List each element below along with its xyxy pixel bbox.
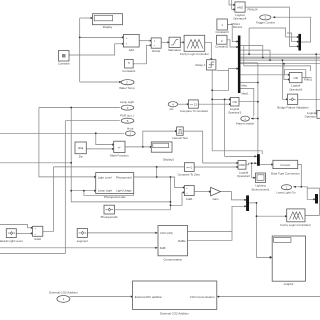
svg-text:Bridge Failure Validation: Bridge Failure Validation: [277, 105, 309, 109]
svg-text:Photoperiod: Photoperiod: [116, 175, 132, 179]
svg-text:Interval Test: Interval Test: [172, 136, 188, 140]
svg-text:segment: segment: [77, 239, 88, 243]
svg-text:Operator: Operator: [305, 115, 316, 119]
svg-text:CO2 Concentration: CO2 Concentration: [190, 295, 215, 299]
svg-text:Add1: Add1: [186, 197, 193, 201]
svg-text:Add2: Add2: [34, 237, 41, 241]
svg-text:RuBis: RuBis: [178, 239, 186, 243]
svg-text:Display1: Display1: [163, 157, 174, 161]
svg-text:[Da]: [Da]: [78, 146, 83, 150]
svg-text:PUR (a.u.): PUR (a.u.): [120, 113, 134, 117]
svg-text:Compare To Constant: Compare To Constant: [180, 109, 208, 113]
svg-text:Fuzzy Logic Controller2: Fuzzy Logic Controller2: [280, 223, 311, 227]
svg-text:OR: OR: [294, 76, 298, 80]
svg-text:Operator3: Operator3: [228, 111, 241, 115]
svg-text:<= 12: <= 12: [190, 102, 198, 106]
svg-text:Operator2: Operator2: [237, 174, 250, 178]
svg-text:Max1: Max1: [242, 91, 249, 95]
svg-text:External CO2 Addition: External CO2 Addition: [160, 312, 189, 316]
svg-text:Max: Max: [242, 83, 248, 87]
svg-text:Light Level: Light Level: [98, 175, 112, 179]
svg-text:Compensation: Compensation: [163, 257, 182, 261]
svg-text:Operator5: Operator5: [289, 87, 302, 91]
svg-text:Relay 2: Relay 2: [195, 63, 205, 67]
svg-text:Light Usage: Light Usage: [116, 189, 132, 193]
svg-text:Pattern switch: Pattern switch: [236, 122, 255, 126]
svg-text:Operator4: Operator4: [233, 17, 246, 21]
svg-text:Lamp Light: Lamp Light: [120, 100, 134, 104]
svg-text:Environment1: Environment1: [252, 187, 270, 191]
svg-text:Natural Light Level: Natural Light Level: [0, 239, 23, 243]
svg-text:pH: pH: [170, 107, 174, 111]
svg-text:OR: OR: [233, 100, 237, 104]
svg-text:Hour: Hour: [127, 127, 133, 131]
svg-text:Gain: Gain: [212, 197, 218, 201]
svg-text:AND: AND: [239, 163, 245, 167]
svg-text:Display: Display: [103, 25, 113, 29]
svg-text:Constant: Constant: [58, 62, 70, 66]
svg-text:Graph2: Graph2: [284, 282, 294, 286]
svg-text:P04o24: P04o24: [248, 7, 258, 11]
svg-text:eⁿ: eⁿ: [118, 145, 121, 149]
svg-text:RG4o1: RG4o1: [233, 25, 243, 29]
svg-text:AND: AND: [237, 5, 243, 9]
svg-text:Photoperiod1: Photoperiod1: [101, 215, 119, 219]
svg-text:Constant3: Constant3: [216, 30, 230, 34]
svg-text:== 0: == 0: [186, 165, 192, 169]
svg-text:Divide: Divide: [152, 49, 160, 53]
svg-text:External CO2 Addition: External CO2 Addition: [49, 291, 78, 295]
svg-text:RuB: RuB: [160, 246, 166, 250]
svg-text:Math Function: Math Function: [110, 153, 129, 157]
svg-text:Photoperiod calc: Photoperiod calc: [104, 195, 126, 199]
svg-text:Trigger Control: Trigger Control: [256, 20, 276, 24]
svg-text:Da: Da: [79, 155, 83, 159]
svg-text:P06o1: P06o1: [304, 77, 313, 81]
svg-text:Add: Add: [129, 48, 135, 52]
svg-text:CO2 (uM): CO2 (uM): [160, 231, 173, 235]
svg-text:Lamp Light: Lamp Light: [98, 189, 112, 193]
svg-text:Constant1: Constant1: [122, 69, 136, 73]
svg-text:Lamp Light On: Lamp Light On: [277, 190, 296, 194]
svg-text:Convert: Convert: [280, 163, 290, 167]
svg-text:Fuzzy Logic Controller: Fuzzy Logic Controller: [180, 52, 209, 56]
svg-text:Data Type Conversion: Data Type Conversion: [271, 172, 300, 176]
svg-text:External DIC addition: External DIC addition: [135, 295, 163, 299]
svg-text:Water Temp: Water Temp: [119, 86, 135, 90]
svg-text:Constant2: Constant2: [215, 45, 229, 49]
svg-text:Compare To Zero: Compare To Zero: [178, 173, 201, 177]
